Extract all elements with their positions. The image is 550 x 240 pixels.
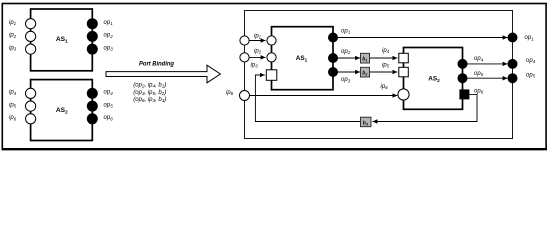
port AS1 op2 (right) [328, 53, 338, 63]
port AS2 ip6 (right) [398, 89, 409, 100]
component AS1 (right diagram) [272, 27, 334, 90]
composite component box [245, 11, 513, 139]
svg-text:op5: op5 [474, 71, 484, 77]
svg-text:ip6: ip6 [226, 90, 234, 96]
port AS1 ip3 square (right) [266, 70, 277, 81]
svg-text:ip4: ip4 [382, 48, 390, 54]
wire AS2 op6 -> b3 (feedback right segment) [373, 94, 478, 121]
port op2 (left AS1) [87, 31, 97, 41]
svg-text:op1: op1 [104, 20, 114, 26]
port AS2 op6 black square (right) [459, 89, 469, 99]
port outer op5 [508, 73, 518, 83]
binding box b1 [361, 53, 370, 63]
wire outer ip6 -> AS2 ip6 [245, 95, 397, 97]
port op6 (left AS2) [87, 114, 97, 124]
port ip6 (left AS2) [26, 114, 36, 124]
port outer ip1 [240, 36, 249, 45]
svg-text:op1: op1 [525, 35, 535, 41]
svg-text:ip5: ip5 [382, 63, 390, 69]
svg-text:op4: op4 [104, 90, 114, 96]
svg-text:ip3: ip3 [251, 63, 259, 69]
wire AS2 op4 -> outer op4 [463, 63, 508, 65]
port AS1 ip1 (right) [267, 36, 276, 45]
port outer op1 [508, 33, 518, 43]
svg-text:ip6: ip6 [381, 84, 389, 90]
port outer op4 [508, 59, 518, 69]
big hollow arrow (port binding transform) [106, 65, 220, 83]
port op3 (left AS1) [87, 44, 97, 54]
port outer ip2 [240, 53, 249, 62]
svg-text:ip3: ip3 [9, 45, 17, 51]
port op1 (left AS1) [87, 19, 97, 29]
svg-text:(op6, ip3, b3): (op6, ip3, b3) [133, 97, 166, 103]
svg-text:ip2: ip2 [9, 33, 17, 39]
port ip3 (left AS1) [26, 44, 36, 54]
svg-text:op3: op3 [341, 77, 351, 83]
svg-text:ip5: ip5 [9, 102, 17, 108]
svg-text:op2: op2 [104, 33, 114, 39]
svg-text:op5: op5 [104, 102, 114, 108]
svg-text:op1: op1 [341, 28, 351, 34]
port ip5 (left AS2) [26, 101, 36, 111]
svg-text:(op3, ip5, b2): (op3, ip5, b2) [133, 90, 166, 96]
svg-text:(op2, ip4, b1): (op2, ip4, b1) [133, 82, 166, 88]
port outer ip6 [240, 91, 250, 101]
svg-text:ip1: ip1 [9, 20, 17, 26]
wire AS1 op1 -> outer op1 [333, 37, 508, 39]
component AS1 (left diagram) [31, 9, 93, 71]
wire b3 -> AS1 ip3 (feedback left segment) [255, 75, 360, 122]
svg-text:ip4: ip4 [9, 90, 17, 96]
port AS2 ip5 square (right) [399, 67, 409, 77]
wire outer ip1 -> AS1 ip1 [245, 40, 266, 42]
svg-text:op6: op6 [474, 88, 484, 94]
port op5 (left AS2) [87, 101, 97, 111]
port AS2 op5 (right) [458, 73, 468, 83]
figure frame bottom thick edge [2, 148, 548, 150]
wire b1 -> AS2 ip4 [370, 57, 397, 59]
svg-text:op4: op4 [474, 56, 484, 62]
port ip4 (left AS2) [26, 88, 36, 98]
wire outer ip2 -> AS1 ip2 [245, 56, 266, 58]
wire AS1 op2 -> b1 [333, 57, 360, 59]
port ip1 (left AS1) [26, 19, 36, 29]
svg-text:op4: op4 [526, 58, 536, 64]
component AS2 (right diagram) [404, 48, 463, 110]
port AS1 op1 (right) [328, 33, 338, 43]
port AS2 op4 (right) [458, 59, 468, 69]
port AS1 op3 (right) [328, 67, 338, 77]
binding box b3 [361, 117, 372, 127]
svg-text:op2: op2 [341, 49, 351, 55]
svg-text:Port Binding: Port Binding [139, 60, 175, 67]
svg-text:op6: op6 [104, 115, 114, 121]
binding box b2 [361, 67, 370, 77]
svg-text:op5: op5 [526, 72, 536, 78]
wire AS1 op3 -> b2 [333, 71, 360, 73]
figure frame [2, 4, 546, 150]
port AS1 ip2 (right) [267, 53, 276, 62]
wire b2 -> AS2 ip5 [370, 71, 397, 73]
port op4 (left AS2) [87, 88, 97, 98]
svg-text:ip2: ip2 [254, 48, 262, 54]
svg-text:op3: op3 [104, 45, 114, 51]
svg-text:ip1: ip1 [254, 33, 262, 39]
port AS2 ip4 square (right) [399, 53, 409, 63]
svg-text:ip6: ip6 [9, 115, 17, 121]
wire AS2 op5 -> outer op5 [463, 77, 508, 79]
port ip2 (left AS1) [26, 31, 36, 41]
component AS2 (left diagram) [31, 80, 93, 141]
